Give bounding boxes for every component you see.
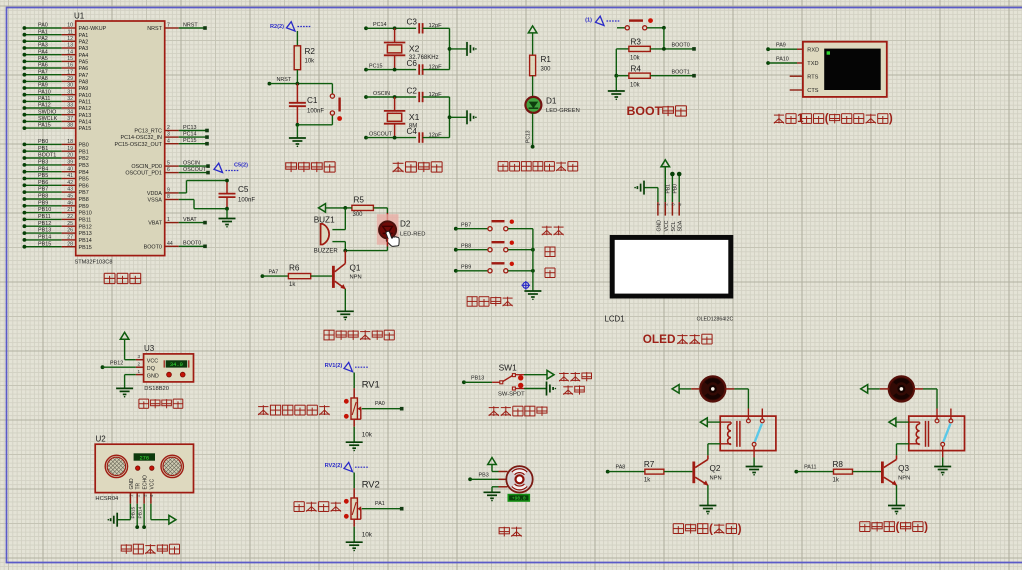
svg-text:PC13: PC13 — [183, 125, 197, 131]
ds18b20 pins — [136, 354, 144, 374]
svg-text:PA9: PA9 — [38, 83, 48, 89]
ultrasonic power arrow — [151, 504, 176, 524]
pin PA14 (37) wire SWCLK — [23, 116, 92, 126]
svg-text:SWCLK: SWCLK — [38, 116, 58, 122]
power arrow above R1 — [528, 26, 537, 55]
svg-text:13: 13 — [67, 43, 73, 49]
wire to triggered ground — [524, 382, 556, 396]
svg-text:300: 300 — [541, 67, 552, 73]
svg-text:RXD: RXD — [807, 47, 819, 53]
svg-text:28: 28 — [67, 241, 73, 247]
svg-text:U2: U2 — [96, 435, 107, 444]
pin PB12 (25) wire PB12 — [23, 221, 92, 231]
svg-text:PB11: PB11 — [79, 218, 92, 224]
crystal X1 8M with C2 C4 — [364, 86, 477, 142]
svg-text:TXD: TXD — [807, 61, 818, 67]
pin NRST (7) wire NRST — [147, 22, 207, 32]
wire R4 to BOOT1 — [650, 69, 696, 77]
pin PA12 (33) wire PA12 — [23, 103, 92, 113]
svg-text:9: 9 — [167, 188, 170, 194]
svg-text:R2(2): R2(2) — [270, 24, 284, 30]
svg-text:PC14: PC14 — [183, 132, 197, 138]
svg-text:PA7: PA7 — [269, 270, 279, 276]
svg-text:PC15-OSC32_OUT: PC15-OSC32_OUT — [115, 142, 163, 148]
pin PA2 (12) wire PA2 — [23, 36, 89, 46]
svg-text:X2: X2 — [409, 43, 420, 53]
svg-text:PA5: PA5 — [38, 56, 48, 62]
svg-text:SCL: SCL — [671, 221, 677, 231]
wire to untriggered power — [524, 370, 554, 379]
svg-text:PA1: PA1 — [79, 33, 89, 39]
svg-text:GND: GND — [147, 373, 159, 379]
oled display LCD1 — [610, 235, 734, 299]
svg-text:PB1: PB1 — [79, 149, 89, 155]
resistor R2 10k — [294, 46, 315, 70]
label OLED display — [643, 333, 712, 346]
svg-text:C1: C1 — [307, 96, 318, 105]
servo display — [508, 494, 531, 502]
svg-text:R1: R1 — [541, 55, 552, 64]
svg-text:PB1: PB1 — [666, 184, 672, 194]
svg-text:PB9: PB9 — [38, 200, 48, 206]
svg-text:PB8: PB8 — [461, 244, 471, 250]
svg-text:PA4: PA4 — [79, 53, 89, 59]
svg-text:OSCOUT: OSCOUT — [183, 167, 207, 173]
svg-text:PA13: PA13 — [79, 113, 92, 119]
pin PB0 (18) wire PB0 — [23, 139, 89, 149]
svg-text:31: 31 — [67, 89, 73, 95]
svg-text:ECHO: ECHO — [143, 475, 149, 490]
svg-text:R8: R8 — [833, 460, 844, 469]
pin PA9 (30) wire PA9 — [23, 83, 89, 93]
svg-text:VCC: VCC — [664, 220, 670, 231]
pin PA5 (15) wire PA5 — [23, 56, 89, 66]
svg-text:10k: 10k — [305, 59, 316, 65]
wire R5 to D2 — [373, 208, 387, 222]
left bus R3 R4 — [614, 49, 629, 78]
svg-text:1k: 1k — [289, 282, 296, 288]
svg-text:43: 43 — [67, 187, 73, 193]
svg-text:12pF: 12pF — [429, 92, 443, 98]
svg-text:PB14: PB14 — [137, 506, 143, 518]
svg-text:PA0-WKUP: PA0-WKUP — [79, 26, 107, 32]
svg-text:PA8: PA8 — [38, 76, 48, 82]
potentiometer RV2 10k — [325, 462, 404, 551]
svg-text:6: 6 — [167, 167, 170, 173]
svg-text:VBAT: VBAT — [183, 217, 197, 223]
oled ground — [634, 181, 658, 203]
svg-text:PA7: PA7 — [38, 69, 48, 75]
svg-text:30: 30 — [67, 83, 73, 89]
svg-text:NPN: NPN — [898, 476, 910, 482]
svg-text:PB8: PB8 — [38, 194, 48, 200]
label reset circuit — [286, 162, 335, 172]
svg-text:SWDIO: SWDIO — [38, 109, 56, 115]
key PB7 (set) — [454, 220, 533, 231]
svg-text:R5: R5 — [354, 195, 365, 204]
svg-text:45: 45 — [67, 194, 73, 200]
pin PB7 (43) wire PB7 — [23, 187, 89, 197]
svg-text:PB12: PB12 — [38, 221, 51, 227]
svg-text:BUZZER: BUZZER — [314, 249, 339, 255]
svg-text:PB14: PB14 — [79, 238, 92, 244]
ultrasonic pin labels — [129, 475, 156, 490]
switch SW1 SW-SPDT — [492, 362, 525, 397]
pin PB13 (26) wire PB13 — [23, 228, 92, 238]
svg-text:PB7: PB7 — [461, 223, 471, 229]
virtual terminal box — [803, 42, 887, 97]
pin PB5 (41) wire PB5 — [23, 173, 89, 183]
svg-text:C5(2): C5(2) — [234, 163, 248, 169]
svg-text:PA3: PA3 — [79, 46, 89, 52]
svg-text:PA0: PA0 — [375, 401, 385, 407]
ultrasonic buttons — [136, 466, 155, 470]
svg-text:PA11: PA11 — [79, 100, 91, 106]
svg-text:): ) — [889, 113, 893, 125]
svg-text:PB0: PB0 — [38, 139, 48, 145]
module U3 DS18B20 body — [144, 354, 194, 382]
svg-text:PB6: PB6 — [38, 180, 48, 186]
power arrow alarm — [319, 204, 348, 213]
svg-text:32: 32 — [67, 96, 73, 102]
pin PA6 (16) wire PA6 — [23, 63, 89, 73]
svg-text:10k: 10k — [362, 532, 373, 539]
svg-text:RV1: RV1 — [362, 379, 380, 390]
svg-text:PA8: PA8 — [79, 80, 89, 86]
capacitor C1 100nF — [289, 84, 324, 125]
svg-text:1: 1 — [138, 369, 141, 374]
svg-text:OSCOUT_PD1: OSCOUT_PD1 — [125, 171, 162, 177]
label serial window — [774, 113, 893, 125]
svg-text:1k: 1k — [833, 478, 840, 484]
svg-text:41: 41 — [67, 173, 73, 179]
label independent keys — [467, 297, 512, 307]
label relay fan — [673, 522, 741, 535]
oled power arrow — [661, 160, 670, 202]
svg-text:R3: R3 — [631, 38, 642, 47]
svg-text:PC15: PC15 — [369, 63, 383, 69]
svg-text:R7: R7 — [644, 460, 655, 469]
svg-text:PC13: PC13 — [526, 130, 532, 143]
wire D2 down — [345, 238, 387, 250]
svg-text:D2: D2 — [400, 220, 411, 229]
pin PB8 (45) wire PB8 — [23, 194, 89, 204]
svg-text:RTS: RTS — [807, 74, 818, 80]
svg-text:PB0: PB0 — [673, 184, 679, 194]
svg-text:(: ( — [825, 113, 829, 125]
svg-text:DS18B20: DS18B20 — [144, 386, 169, 392]
svg-text:26: 26 — [67, 228, 73, 234]
pin PA15 (38) wire PA15 — [23, 123, 92, 133]
pin PB10 (21) wire PB10 — [23, 207, 92, 217]
svg-text:U3: U3 — [144, 344, 155, 353]
chip label zhuxinpian — [104, 273, 141, 283]
svg-text:PA2: PA2 — [79, 39, 89, 45]
resistor R4 10k — [629, 64, 650, 88]
ground BOOT — [608, 76, 625, 100]
svg-text:R4: R4 — [631, 64, 642, 73]
probe C5(2) — [214, 163, 248, 173]
label crystal circuit — [393, 162, 442, 172]
svg-text:VDDA: VDDA — [147, 191, 162, 197]
led D2 highlight — [377, 214, 399, 245]
wire PB1 to SCL — [666, 172, 675, 202]
svg-text:VCC: VCC — [149, 479, 155, 490]
pin PC15-OSC32_OUT (4) wire PC15 — [115, 138, 209, 148]
ultrasonic ground — [108, 504, 131, 527]
svg-text:44: 44 — [167, 241, 173, 247]
svg-text:PA10: PA10 — [38, 89, 51, 95]
pin PB4 (40) wire PB4 — [23, 166, 89, 176]
svg-text:(: ( — [709, 522, 713, 535]
wire D1 to PC13 — [526, 113, 535, 149]
svg-text:PA9: PA9 — [79, 86, 89, 92]
svg-text:34: 34 — [67, 109, 73, 115]
svg-text:PB10: PB10 — [79, 211, 92, 217]
svg-text:LCD1: LCD1 — [605, 315, 625, 324]
label jian — [545, 268, 555, 278]
pin PB2 (20) wire BOOT1 — [23, 153, 89, 163]
svg-text:SW1: SW1 — [499, 362, 517, 372]
svg-text:(1): (1) — [585, 18, 592, 24]
svg-text:OLED: OLED — [643, 333, 676, 346]
oled pins — [656, 202, 684, 231]
label smoke adjust — [294, 502, 341, 512]
svg-text:PA9: PA9 — [776, 43, 786, 49]
label shezhi — [542, 226, 564, 236]
resistor R5 300 — [345, 195, 373, 218]
pin PB6 (42) wire PB6 — [23, 180, 89, 190]
ds18b20 power arrow — [120, 332, 136, 359]
svg-text:OSCIN: OSCIN — [183, 161, 200, 167]
ultrasonic pins — [129, 493, 155, 504]
label untriggered — [559, 372, 592, 381]
buzzer BUZ1 — [314, 215, 339, 254]
wire VDDA to C5 — [187, 181, 228, 193]
svg-text:STM32F103C8: STM32F103C8 — [75, 260, 113, 266]
svg-text:12: 12 — [67, 36, 73, 42]
svg-text:12pF: 12pF — [429, 23, 443, 29]
svg-text:U1: U1 — [74, 12, 85, 21]
svg-text:PB4: PB4 — [38, 166, 48, 172]
svg-text:TR: TR — [136, 482, 142, 489]
svg-text:40: 40 — [67, 166, 73, 172]
svg-text:+90.0: +90.0 — [512, 496, 526, 502]
pin PA3 (13) wire PA3 — [23, 43, 89, 53]
blue origin marker — [522, 281, 531, 290]
svg-text:PB13: PB13 — [79, 231, 92, 237]
pin PA0-WKUP (10) wire PA0 — [23, 23, 107, 32]
svg-text:276: 276 — [139, 455, 149, 461]
svg-text:PB15: PB15 — [79, 245, 92, 251]
svg-text:PB15: PB15 — [130, 506, 136, 518]
svg-text:12pF: 12pF — [429, 132, 443, 138]
pin PB3 (39) wire PB3 — [23, 160, 89, 170]
probe R2(2) — [270, 22, 311, 31]
label relay extinguish — [860, 520, 928, 533]
pin PC14-OSC32_IN (3) wire PC14 — [121, 132, 209, 142]
wire R2 to NRST node — [296, 70, 298, 84]
label program run indicator — [498, 162, 578, 171]
svg-text:PA0: PA0 — [38, 23, 48, 29]
svg-text:PA15: PA15 — [79, 126, 92, 132]
crystal X2 32.768KHz with C3 C6 — [364, 18, 477, 75]
svg-text:17: 17 — [67, 69, 73, 75]
svg-text:): ) — [924, 520, 928, 533]
svg-text:PB9: PB9 — [79, 204, 89, 210]
key PB9 (minus) — [454, 262, 535, 273]
svg-text:PA2: PA2 — [38, 36, 48, 42]
ultrasonic right transducer — [161, 455, 183, 477]
svg-text:PB6: PB6 — [79, 183, 89, 189]
pin PB14 (27) wire PB14 — [23, 235, 92, 245]
ultrasonic left transducer — [105, 455, 127, 477]
potentiometer RV1 10k — [325, 362, 404, 451]
svg-text:Q3: Q3 — [898, 464, 909, 473]
ds18b20 ground — [116, 375, 136, 398]
svg-text:OLED12864I2C: OLED12864I2C — [697, 317, 734, 323]
svg-text:2: 2 — [138, 362, 141, 367]
svg-text:R2: R2 — [305, 47, 316, 56]
svg-text:3: 3 — [138, 354, 141, 359]
svg-text:PB11: PB11 — [38, 214, 51, 220]
svg-text:PA3: PA3 — [38, 43, 48, 49]
node NRST — [268, 77, 333, 85]
svg-text:VBAT: VBAT — [148, 221, 162, 227]
pin PA7 (17) wire PA7 — [23, 69, 89, 79]
svg-text:PA10: PA10 — [79, 93, 92, 99]
svg-text:BOOT0: BOOT0 — [144, 244, 162, 250]
svg-text:PA11: PA11 — [38, 96, 50, 102]
pin PC13_RTC (2) wire PC13 — [134, 125, 208, 135]
svg-text:11: 11 — [68, 29, 73, 35]
label servo — [499, 527, 522, 537]
svg-text:PA6: PA6 — [79, 66, 89, 72]
svg-text:PB3: PB3 — [479, 473, 489, 479]
svg-text:X1: X1 — [409, 112, 420, 122]
label jia — [545, 247, 555, 257]
svg-text:3: 3 — [167, 132, 170, 138]
svg-text:20: 20 — [67, 153, 73, 159]
svg-text:PB9: PB9 — [461, 265, 471, 271]
svg-text:19: 19 — [67, 146, 73, 152]
svg-text:PA12: PA12 — [38, 103, 51, 109]
pin PB1 (19) wire PB1 — [23, 146, 89, 156]
svg-text:PB10: PB10 — [38, 207, 51, 213]
svg-text:PB13: PB13 — [471, 376, 484, 382]
svg-text:DQ: DQ — [147, 366, 155, 372]
probe (1) — [585, 16, 620, 25]
svg-text:PA12: PA12 — [79, 106, 92, 112]
svg-text:PB4: PB4 — [79, 170, 89, 176]
svg-text:25: 25 — [67, 221, 73, 227]
svg-text:PA1: PA1 — [375, 501, 385, 507]
wire PA10 — [766, 56, 803, 65]
svg-text:10k: 10k — [630, 56, 641, 62]
svg-text:10k: 10k — [362, 432, 373, 439]
svg-text:1: 1 — [167, 217, 170, 223]
svg-text:BOOT0: BOOT0 — [672, 43, 690, 49]
label air quality adjust — [258, 405, 330, 415]
svg-text:LED-GREEN: LED-GREEN — [546, 108, 580, 114]
svg-text:16: 16 — [67, 63, 73, 69]
svg-text:PB8: PB8 — [79, 197, 89, 203]
svg-text:PA4: PA4 — [38, 49, 48, 55]
label infrared module — [489, 406, 547, 416]
pin BOOT0 (44) wire BOOT0 — [144, 241, 207, 251]
buzzer wires — [332, 208, 347, 253]
svg-text:PB3: PB3 — [38, 160, 48, 166]
wire PB12 to DQ — [101, 360, 136, 369]
svg-text:CTS: CTS — [807, 88, 818, 94]
pin VSSA (8) — [148, 194, 194, 204]
label temperature module — [139, 399, 183, 408]
pin VDDA (9) — [147, 188, 187, 198]
svg-text:NRST: NRST — [147, 26, 162, 32]
module U2 HCSR04 body — [95, 444, 193, 492]
svg-text:PB5: PB5 — [38, 173, 48, 179]
svg-text:1k: 1k — [644, 478, 651, 484]
svg-text:10: 10 — [67, 23, 73, 29]
wire PA9 — [766, 43, 803, 52]
svg-text:D1: D1 — [546, 97, 557, 106]
svg-text:PA15: PA15 — [38, 123, 51, 129]
svg-text:GND: GND — [129, 478, 135, 490]
servo motor body — [506, 466, 532, 492]
ground under C1 — [289, 125, 306, 147]
reset button — [330, 84, 342, 121]
key PB8 (plus) — [454, 241, 535, 252]
ground under C5 — [219, 209, 236, 228]
led D2 LED-RED — [379, 220, 425, 239]
svg-text:PB7: PB7 — [79, 190, 89, 196]
svg-text:PB13: PB13 — [38, 228, 51, 234]
svg-text:38: 38 — [67, 123, 73, 129]
wire TR — [130, 504, 139, 529]
svg-text:NRST: NRST — [183, 22, 198, 28]
svg-text:PC13_RTC: PC13_RTC — [134, 129, 162, 135]
svg-text:(: ( — [896, 520, 900, 533]
pin RTS stub — [790, 75, 803, 77]
svg-text:BUZ1: BUZ1 — [314, 215, 335, 224]
pin PB11 (22) wire PB11 — [23, 214, 92, 224]
wire ECHO — [137, 504, 146, 529]
svg-text:PA1: PA1 — [38, 29, 48, 35]
svg-text:C3: C3 — [407, 18, 418, 27]
svg-text:8: 8 — [167, 194, 170, 200]
svg-text:): ) — [738, 522, 742, 535]
mcu U1 STM32F103C8 body — [76, 21, 165, 256]
svg-text:PA14: PA14 — [79, 120, 92, 126]
svg-text:34.0: 34.0 — [170, 362, 183, 368]
svg-text:PB1: PB1 — [38, 146, 48, 152]
relay module extinguish: motor, relay, Q3, R8 — [794, 376, 964, 514]
svg-text:PA5: PA5 — [79, 60, 89, 66]
resistor R1 300 — [530, 55, 552, 76]
resistor R6 1k and PA7 — [261, 264, 333, 288]
svg-text:PB5: PB5 — [79, 177, 89, 183]
pin PA1 (11) wire PA1 — [23, 29, 89, 39]
svg-text:27: 27 — [67, 235, 73, 241]
svg-text:39: 39 — [67, 160, 73, 166]
svg-text:GND: GND — [656, 220, 662, 232]
pin OSCIN_PD0 (5) wire OSCIN — [131, 161, 209, 171]
svg-text:2: 2 — [167, 125, 170, 131]
label BOOT circuit — [627, 104, 687, 118]
svg-text:LED-RED: LED-RED — [400, 232, 425, 238]
svg-text:PC15: PC15 — [183, 138, 197, 144]
pin PA11 (32) wire PA11 — [23, 96, 91, 106]
